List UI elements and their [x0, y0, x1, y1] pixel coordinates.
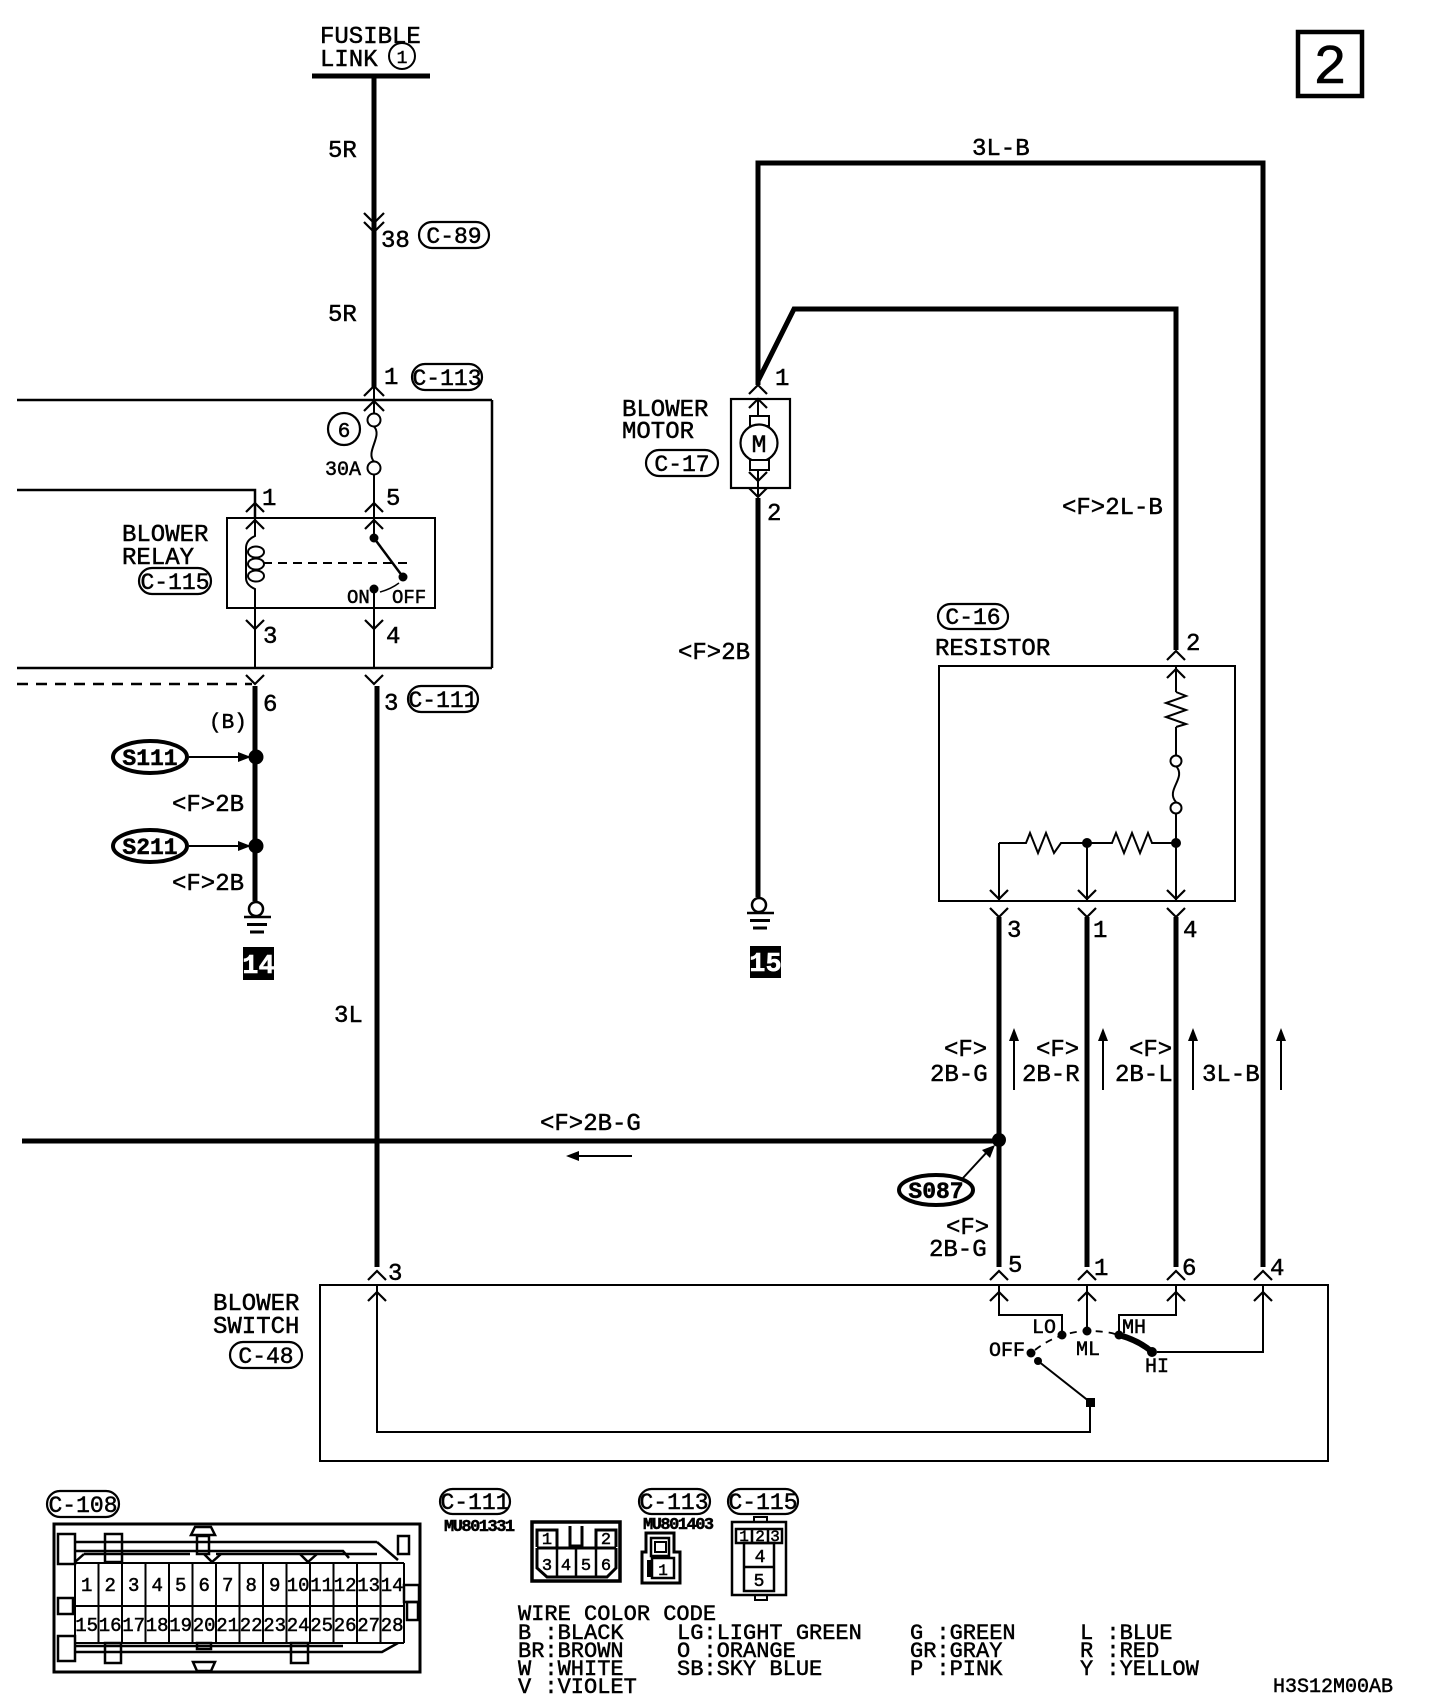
- chevrons relay pin 1: [246, 503, 264, 529]
- fuse circled 6: [328, 413, 360, 445]
- svg-text:V :VIOLET: V :VIOLET: [518, 1675, 637, 1700]
- svg-text:2: 2: [1186, 631, 1200, 658]
- wire label F 2B-R column: [1022, 1037, 1080, 1089]
- svg-text:21: 21: [216, 1615, 239, 1637]
- connector capsule C-48: [230, 1342, 302, 1370]
- relay switch top contact: [370, 534, 379, 543]
- connector C-108 pin numbers row 1: [81, 1575, 404, 1597]
- switch wire from pin 5 to LO: [999, 1285, 1062, 1332]
- connector C-108 body: [54, 1524, 420, 1672]
- svg-text:20: 20: [193, 1615, 216, 1637]
- contact dot HI: [1147, 1347, 1157, 1357]
- fuse 30A symbol: [368, 414, 381, 475]
- chevrons motor pin 2: [749, 472, 767, 497]
- wire 3L-B top horizontal: [758, 163, 1263, 1267]
- svg-text:11: 11: [310, 1575, 333, 1597]
- up arrow 2: [1098, 1028, 1108, 1090]
- resistor pin 1 wire: [1086, 843, 1088, 901]
- relay coil: [246, 518, 264, 608]
- svg-text:C-115: C-115: [728, 1490, 797, 1516]
- svg-text:2B-G: 2B-G: [930, 1062, 988, 1089]
- svg-text:26: 26: [334, 1615, 357, 1637]
- chevrons switch pin 5: [990, 1271, 1008, 1301]
- chevrons resistor pin 2: [1167, 651, 1185, 678]
- resistor element R2: [999, 833, 1087, 853]
- svg-text:1: 1: [775, 366, 789, 393]
- connector C-115 pin numbers: [739, 1528, 780, 1592]
- resistor pin 4 wire: [1175, 843, 1177, 901]
- ground reference 15: [749, 946, 781, 980]
- svg-text:ON: ON: [347, 587, 370, 609]
- wire to relay pin 1: [17, 490, 255, 518]
- up arrow 1: [1009, 1028, 1019, 1090]
- contact dot OFF: [1027, 1349, 1036, 1358]
- svg-text:M: M: [751, 431, 766, 460]
- connector capsule C-115 (footer): [728, 1489, 798, 1516]
- wire label F 2B-L column: [1115, 1037, 1173, 1089]
- junction dot S087: [992, 1133, 1006, 1147]
- connector capsule C-111 (footer): [440, 1489, 510, 1516]
- connector C-113 body: [642, 1533, 680, 1583]
- svg-text:<F>2L-B: <F>2L-B: [1062, 495, 1163, 522]
- chevrons resistor pin 3: [990, 890, 1008, 917]
- blower relay box: [227, 518, 435, 608]
- svg-text:18: 18: [146, 1615, 169, 1637]
- splice S211: [113, 830, 251, 862]
- connector capsule C-17: [646, 450, 718, 478]
- junction block right edge: [491, 400, 494, 668]
- svg-text:17: 17: [122, 1615, 145, 1637]
- relay throw arc: [380, 583, 399, 592]
- svg-text:14: 14: [242, 952, 274, 982]
- svg-text:C-113: C-113: [639, 1490, 708, 1516]
- switch lever: [1038, 1361, 1090, 1402]
- svg-text:5: 5: [175, 1575, 186, 1597]
- svg-text:S087: S087: [908, 1179, 963, 1205]
- switch wire from pin 6 to MH: [1119, 1285, 1176, 1332]
- svg-text:19: 19: [169, 1615, 192, 1637]
- page number box 2: [1298, 32, 1362, 100]
- svg-text:C-111: C-111: [408, 688, 477, 714]
- relay lever tip dot: [399, 573, 408, 582]
- svg-text:1: 1: [262, 486, 276, 513]
- svg-text:1: 1: [658, 1562, 668, 1580]
- svg-text:9: 9: [269, 1575, 280, 1597]
- resistor pin 3 wire: [998, 843, 1000, 901]
- svg-text:27: 27: [357, 1615, 380, 1637]
- svg-text:LINK: LINK: [320, 47, 378, 74]
- svg-text:SWITCH: SWITCH: [213, 1314, 299, 1341]
- connector C-108 pin grid: [75, 1563, 404, 1643]
- svg-text:2B-L: 2B-L: [1115, 1062, 1173, 1089]
- svg-text:25: 25: [310, 1615, 333, 1637]
- up arrow 4: [1276, 1028, 1286, 1090]
- svg-text:3L-B: 3L-B: [972, 136, 1030, 163]
- svg-text:HI: HI: [1145, 1356, 1169, 1379]
- junction dot S111: [249, 750, 264, 765]
- wire 2B-R vertical thick: [1085, 917, 1090, 1267]
- fusible link bus bar: [312, 74, 430, 79]
- svg-text:30A: 30A: [325, 459, 361, 482]
- lever pivot: [1086, 1398, 1095, 1407]
- connector capsule C-113: [412, 364, 482, 392]
- wire into fuse: [373, 387, 375, 414]
- svg-text:2: 2: [104, 1575, 115, 1597]
- junction block bottom edge: [17, 667, 492, 670]
- relay pin 4 wire: [373, 589, 375, 668]
- svg-text:3: 3: [384, 691, 398, 718]
- junction block top edge: [17, 399, 492, 402]
- relay actuating dashed line: [263, 562, 408, 564]
- svg-text:2: 2: [755, 1528, 765, 1546]
- resistor element R3: [1087, 833, 1176, 853]
- chevrons switch pin 4: [1254, 1271, 1272, 1301]
- svg-text:OFF: OFF: [989, 1340, 1025, 1363]
- connector C-111 pin numbers: [542, 1531, 611, 1576]
- chevrons switch pin 1: [1078, 1271, 1096, 1301]
- svg-text:5: 5: [754, 1572, 765, 1592]
- svg-text:S211: S211: [122, 835, 177, 861]
- svg-text:Y :YELLOW: Y :YELLOW: [1080, 1657, 1200, 1682]
- svg-text:5: 5: [581, 1557, 591, 1576]
- svg-text:6: 6: [263, 692, 277, 719]
- connector C-111 body: [532, 1522, 620, 1581]
- wire 5R from fusible link: [372, 76, 377, 387]
- svg-text:C-111: C-111: [440, 1490, 509, 1516]
- svg-text:5: 5: [1008, 1253, 1022, 1280]
- svg-text:4: 4: [386, 624, 400, 651]
- svg-text:H3S12M00AB: H3S12M00AB: [1273, 1676, 1393, 1699]
- svg-text:15: 15: [75, 1615, 98, 1637]
- ground wire B thick: [253, 686, 258, 901]
- ground symbol motor: [747, 898, 774, 928]
- svg-text:<F>2B: <F>2B: [172, 871, 244, 898]
- svg-text:<F>: <F>: [1129, 1037, 1172, 1064]
- chevrons relay pin 3: [246, 620, 264, 684]
- connector C-89 pass-through chevrons: [364, 213, 384, 232]
- svg-text:16: 16: [99, 1615, 122, 1637]
- svg-text:C-17: C-17: [654, 452, 709, 478]
- svg-text:ML: ML: [1076, 1339, 1100, 1362]
- chevrons resistor pin 1: [1078, 890, 1096, 917]
- connector capsule C-89: [419, 222, 489, 250]
- junction dot S211: [249, 839, 264, 854]
- blower switch box: [320, 1285, 1328, 1461]
- svg-text:4: 4: [755, 1548, 766, 1568]
- svg-text:2B-G: 2B-G: [929, 1237, 987, 1264]
- svg-text:23: 23: [263, 1615, 286, 1637]
- splice S087: [899, 1145, 995, 1205]
- svg-text:1: 1: [1093, 918, 1107, 945]
- resistor element R1: [1166, 666, 1186, 756]
- svg-text:3: 3: [1007, 918, 1021, 945]
- wire label F 2B-G column: [930, 1037, 988, 1089]
- svg-text:12: 12: [334, 1575, 357, 1597]
- chevrons resistor pin 4: [1167, 890, 1185, 917]
- connector capsule C-16: [938, 604, 1008, 631]
- relay lever: [374, 538, 403, 577]
- wire 2L-B from motor to resistor: [758, 309, 1176, 650]
- svg-text:MOTOR: MOTOR: [622, 419, 694, 446]
- chevrons relay pin 5: [365, 503, 383, 529]
- switch wire from pin 4 to HI: [1157, 1285, 1263, 1352]
- wire 2B-L vertical thick: [1174, 917, 1179, 1267]
- svg-text:C-115: C-115: [140, 570, 209, 596]
- svg-text:28: 28: [381, 1615, 404, 1637]
- svg-text:10: 10: [287, 1575, 310, 1597]
- blower motor label: [622, 397, 708, 446]
- wire fuse to relay pin 5: [373, 474, 375, 538]
- svg-text:14: 14: [381, 1575, 404, 1597]
- switch wire from pin 1 to ML: [1086, 1285, 1088, 1328]
- thermal fuse: [1171, 756, 1182, 844]
- chevrons motor pin 1: [749, 385, 767, 408]
- left direction arrow: [566, 1151, 632, 1161]
- wire color code legend: [518, 1602, 1200, 1700]
- ground reference 14: [242, 947, 274, 982]
- connector C-108 pin numbers row 2: [75, 1615, 403, 1637]
- dashed selector arc: [1035, 1331, 1115, 1350]
- connector capsule C-108: [47, 1491, 119, 1519]
- svg-text:5: 5: [386, 486, 400, 513]
- svg-text:3L: 3L: [334, 1003, 363, 1030]
- svg-text:2: 2: [1313, 36, 1347, 100]
- chevrons switch pin 6: [1167, 1271, 1185, 1301]
- svg-text:24: 24: [287, 1615, 310, 1637]
- svg-text:7: 7: [222, 1575, 233, 1597]
- ground symbol left: [244, 902, 271, 932]
- svg-text:13: 13: [357, 1575, 380, 1597]
- relay ON contact: [370, 585, 379, 594]
- wire 3L thick vertical: [375, 686, 380, 1267]
- svg-text:C-16: C-16: [945, 605, 1000, 631]
- chevrons switch pin 3: [368, 1271, 386, 1301]
- svg-text:C-89: C-89: [426, 224, 481, 250]
- motor ground wire thick: [756, 498, 761, 897]
- chevrons entering junction block: [364, 386, 384, 411]
- svg-text:1: 1: [397, 49, 408, 69]
- svg-text:<F>: <F>: [944, 1037, 987, 1064]
- svg-text:38: 38: [381, 228, 410, 255]
- svg-text:SB:SKY BLUE: SB:SKY BLUE: [677, 1657, 822, 1682]
- svg-text:1: 1: [384, 365, 398, 392]
- fusible link circled 1: [389, 43, 415, 69]
- relay pin 3 wire: [254, 608, 256, 668]
- contact dot ML: [1083, 1327, 1092, 1336]
- harness dashed boundary: [17, 683, 252, 686]
- svg-text:OFF: OFF: [392, 587, 426, 609]
- svg-text:6: 6: [601, 1557, 611, 1576]
- lever contact dot: [1034, 1357, 1042, 1365]
- svg-text:RESISTOR: RESISTOR: [935, 636, 1050, 663]
- svg-text:4: 4: [561, 1557, 571, 1576]
- svg-text:LO: LO: [1032, 1317, 1056, 1340]
- svg-text:4: 4: [151, 1575, 162, 1597]
- svg-text:<F>: <F>: [1036, 1037, 1079, 1064]
- contact dot LO: [1058, 1331, 1067, 1340]
- svg-text:2: 2: [601, 1531, 611, 1550]
- junction dot resistor mid: [1082, 838, 1092, 848]
- svg-text:<F>2B: <F>2B: [172, 792, 244, 819]
- svg-text:3L-B: 3L-B: [1202, 1062, 1260, 1089]
- up arrow 3: [1188, 1028, 1198, 1090]
- contact dot MH: [1115, 1331, 1124, 1340]
- svg-text:C-113: C-113: [412, 366, 481, 392]
- switch common wire to pin 3: [377, 1285, 1090, 1432]
- svg-text:P :PINK: P :PINK: [910, 1657, 1003, 1682]
- junction dot resistor right: [1171, 838, 1181, 848]
- svg-text:C-48: C-48: [238, 1344, 293, 1370]
- svg-text:<F>2B: <F>2B: [678, 640, 750, 667]
- svg-text:(B): (B): [209, 712, 247, 735]
- svg-text:2: 2: [767, 501, 781, 528]
- blower switch label: [213, 1291, 299, 1341]
- svg-text:2B-R: 2B-R: [1022, 1062, 1080, 1089]
- wire label F 2B-G below splice: [929, 1215, 989, 1264]
- svg-text:3: 3: [128, 1575, 139, 1597]
- wire 2B-G vertical thick: [997, 917, 1002, 1267]
- svg-text:1: 1: [81, 1575, 92, 1597]
- svg-text:4: 4: [1183, 918, 1197, 945]
- blower motor M1: [731, 399, 790, 497]
- svg-text:3: 3: [542, 1557, 552, 1576]
- blower relay label: [122, 522, 208, 572]
- svg-text:<F>2B-G: <F>2B-G: [540, 1111, 641, 1138]
- svg-text:1: 1: [542, 1531, 552, 1550]
- wire 2B-G horizontal thick: [22, 1139, 999, 1144]
- svg-text:15: 15: [749, 950, 781, 980]
- svg-text:3: 3: [770, 1528, 780, 1546]
- connector C-115 body: [732, 1517, 786, 1600]
- svg-text:8: 8: [245, 1575, 256, 1597]
- wiper arc MH to HI thick: [1119, 1335, 1152, 1352]
- svg-text:MU801331: MU801331: [444, 1518, 515, 1537]
- fusible link label: [320, 24, 421, 74]
- svg-text:5R: 5R: [328, 138, 357, 165]
- svg-text:3: 3: [263, 624, 277, 651]
- svg-text:S111: S111: [122, 746, 177, 772]
- svg-text:22: 22: [240, 1615, 263, 1637]
- resistor box C-16: [939, 666, 1235, 901]
- svg-text:C-108: C-108: [48, 1493, 117, 1519]
- connector capsule C-115 (relay): [139, 568, 211, 596]
- svg-text:3: 3: [388, 1261, 402, 1288]
- svg-text:6: 6: [198, 1575, 209, 1597]
- svg-text:1: 1: [739, 1528, 749, 1546]
- svg-text:5R: 5R: [328, 302, 357, 329]
- connector capsule C-111 (wire): [408, 686, 478, 714]
- chevrons relay pin 4: [365, 620, 383, 684]
- splice S111: [113, 741, 251, 773]
- connector capsule C-113 (footer): [639, 1489, 710, 1516]
- svg-text:6: 6: [338, 421, 351, 444]
